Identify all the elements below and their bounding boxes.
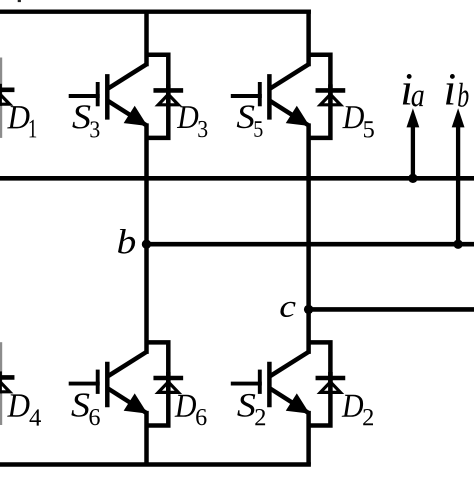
wire phase-a output line: [0, 176, 474, 181]
label D5: [342, 106, 364, 128]
label ia: [403, 74, 412, 105]
diode D3: [153, 84, 183, 106]
diode D6: [153, 372, 183, 394]
transistor S6: [69, 352, 147, 413]
label node c: [280, 302, 295, 317]
label D2: [342, 395, 363, 417]
label ib: [446, 74, 455, 105]
label S3: [72, 105, 90, 128]
wire leg-b middle (S3 emitter through node b to S6 collector): [144, 123, 149, 354]
current arrow ia: [407, 108, 420, 178]
node ib junction dot: [453, 240, 462, 249]
node b junction dot: [142, 240, 151, 249]
diode D1 (cropped at left edge): [0, 84, 14, 106]
wire D5 branch: [308, 55, 331, 138]
cropped phase-a diode branch wire (upper, left edge): [0, 58, 2, 138]
node c junction dot: [304, 305, 313, 314]
node ia junction dot: [408, 174, 417, 183]
wire leg-c middle (S5 emitter through node c to S2 collector): [306, 123, 311, 354]
wire leg-b lower (S6 emitter to bottom bus): [144, 411, 149, 465]
wire D2 branch: [308, 342, 331, 425]
wire leg-c upper (bus to S5 collector): [306, 10, 311, 67]
cropped label remnant tick (top edge): [18, 0, 21, 2]
current arrow ib: [452, 108, 465, 244]
wire leg-c lower (S2 emitter to bottom bus): [306, 411, 311, 465]
label D6: [175, 395, 196, 417]
wire D3 branch: [146, 55, 169, 138]
label S5: [237, 105, 255, 128]
wire leg-b upper (bus to S3 collector): [144, 10, 149, 67]
diode D2: [316, 372, 346, 394]
transistor S2: [231, 352, 309, 413]
cropped phase-a diode branch wire (lower, left edge): [0, 342, 2, 425]
wire top DC bus: [0, 9, 311, 13]
label S2: [237, 394, 255, 417]
label D4: [7, 394, 29, 416]
diode D5: [316, 84, 346, 106]
wire D6 branch: [146, 342, 169, 425]
diode D4 (cropped at left edge): [0, 371, 14, 393]
label D1: [7, 106, 29, 128]
wire phase-b output line: [147, 242, 474, 247]
label node b: [118, 229, 135, 254]
label S6: [71, 393, 89, 416]
wire bottom DC bus: [0, 462, 311, 467]
wire phase-c output line: [309, 307, 474, 312]
label D3: [177, 106, 198, 128]
transistor S5: [231, 64, 309, 125]
transistor S3: [69, 64, 147, 125]
